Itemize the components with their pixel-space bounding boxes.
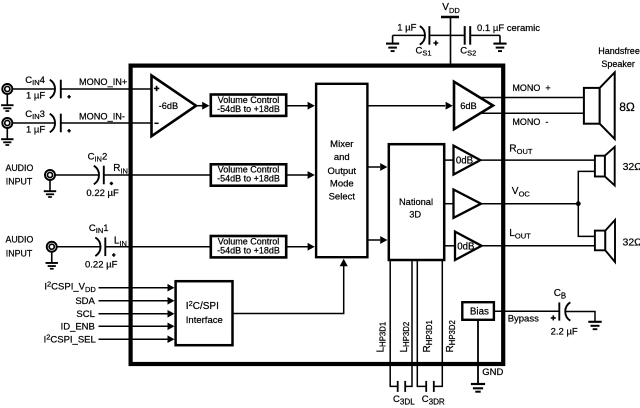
wire J2 to CIN3 [12, 122, 55, 124]
svg-text:INPUT: INPUT [6, 176, 33, 186]
input jack J2 MONO_IN- [2, 118, 12, 128]
op-amp A2 6dB output [454, 82, 493, 130]
svg-text:MONO_IN-: MONO_IN- [79, 111, 125, 121]
block mixer Mixer and Output Mode Select [316, 84, 367, 257]
block VC3 Volume Control [211, 236, 286, 257]
wire CIN1 to VC3, node LIN [105, 246, 211, 248]
svg-text:0.22 µF: 0.22 µF [86, 188, 119, 199]
wire VDD vertical into chip [450, 17, 452, 65]
svg-text:1 µF: 1 µF [26, 90, 45, 101]
wire interface to mixer bottom with up arrow [233, 266, 344, 314]
wire CB to ground [566, 312, 595, 322]
speaker SP1 handsfree 8 ohm [584, 72, 615, 139]
svg-text:0.1 µF ceramic: 0.1 µF ceramic [477, 23, 540, 34]
wire CIN4 to amp, node MONO_IN+ [61, 88, 152, 90]
wire junction to L speaker return [578, 204, 595, 237]
wire HP3D line 2 [405, 260, 412, 386]
capacitor CS2 [465, 26, 471, 45]
wire MONO- to speaker [480, 112, 584, 114]
svg-text:Select: Select [329, 192, 356, 203]
wire ID_ENB into interface with arrow [99, 325, 168, 327]
capacitor CIN3 [50, 114, 71, 133]
svg-text:2.2 µF: 2.2 µF [551, 327, 578, 338]
svg-text:Mode: Mode [330, 179, 354, 190]
wire HP3D line 1 [390, 260, 398, 386]
op-amp A4 VOC buffer [454, 190, 482, 218]
wire CIN2 to VC2, node RIN [104, 174, 211, 176]
svg-text:Output: Output [328, 166, 357, 177]
wire supply rail horizontal [393, 34, 500, 36]
svg-text:0dB: 0dB [457, 242, 474, 253]
wire LOUT to speaker [482, 245, 595, 247]
svg-text:ID_ENB: ID_ENB [61, 322, 95, 333]
wire J1 to CIN4 [12, 88, 55, 90]
ground GND symbol [471, 384, 485, 392]
junction node VOC [576, 201, 581, 206]
svg-text:MONO -: MONO - [512, 117, 548, 127]
wire MONO+ to speaker [479, 97, 584, 99]
svg-text:and: and [334, 152, 350, 163]
svg-text:-6dB: -6dB [159, 101, 178, 111]
ground right of CB [588, 322, 601, 329]
wire I2CSPI_SEL into interface with arrow [99, 338, 168, 340]
wire J3 to CIN2 [55, 174, 99, 176]
svg-text:Handsfree: Handsfree [598, 46, 640, 56]
svg-text:0.22 µF: 0.22 µF [85, 260, 118, 271]
wire mixer to National 3D lower with arrow [367, 239, 380, 241]
wire national to VOC amp [444, 203, 453, 205]
wire SCL into interface with arrow [99, 313, 168, 315]
svg-text:Mixer: Mixer [330, 139, 353, 150]
wire mixer to 6dB amp with arrow [367, 105, 445, 107]
svg-text:32Ω: 32Ω [623, 236, 640, 248]
capacitor CIN1 [95, 237, 115, 256]
wire junction to R speaker return [578, 171, 595, 203]
speaker SP2 right 32 ohm [595, 147, 615, 186]
op-amp A3 0dB right [454, 146, 481, 175]
wire VC1 to mixer with arrow [288, 105, 309, 107]
wire A1 output to VC1 with arrow [196, 105, 203, 107]
ground left of CS1 [386, 35, 399, 51]
input jack J4 left audio [47, 242, 57, 252]
svg-text:Bias: Bias [470, 307, 489, 318]
svg-text:National: National [399, 197, 433, 207]
block bias [462, 302, 494, 320]
A1 minus input mark [154, 122, 158, 124]
svg-text:Interface: Interface [186, 315, 223, 326]
wire national to 0dB L amp [444, 245, 455, 247]
capacitor CB [551, 302, 571, 320]
svg-text:3D: 3D [409, 210, 421, 220]
capacitor CIN4 [50, 80, 71, 99]
A1 plus input mark [154, 86, 159, 91]
svg-text:AUDIO: AUDIO [5, 163, 33, 173]
svg-text:MONO +: MONO + [512, 83, 550, 93]
wire HP3D line 4 [434, 260, 443, 386]
block VC2 Volume Control [211, 164, 286, 185]
wire SDA into interface with arrow [99, 300, 168, 302]
svg-text:INPUT: INPUT [6, 248, 33, 258]
op-amp A5 0dB left [455, 232, 482, 260]
wire VC3 to mixer with arrow [288, 246, 309, 248]
svg-text:-54dB to +18dB: -54dB to +18dB [217, 104, 280, 114]
svg-text:32Ω: 32Ω [623, 161, 640, 173]
ground under J4 [46, 251, 58, 268]
wire ROUT to speaker [480, 159, 595, 161]
capacitor CIN2 [94, 166, 113, 185]
svg-text:SCL: SCL [76, 309, 94, 320]
svg-text:1 µF: 1 µF [397, 23, 416, 34]
VDD supply bar [441, 16, 459, 18]
input jack J1 MONO_IN+ [2, 84, 12, 94]
wire VC2 to mixer with arrow [288, 174, 309, 176]
wire CIN3 to amp, node MONO_IN- [61, 122, 152, 124]
speaker SP3 left 32 ohm [595, 220, 615, 262]
svg-text:Speaker: Speaker [601, 59, 635, 69]
capacitor C3DR [426, 381, 434, 392]
op-amp A1 -6dB [152, 76, 197, 137]
ground under J1 [1, 94, 13, 111]
input jack J3 right audio [45, 170, 55, 180]
block U3 I2C/SPI Interface [176, 281, 233, 345]
wire I2CSPI_VDD into interface with arrow [99, 287, 168, 289]
ground under J3 [44, 180, 56, 197]
svg-text:-54dB to +18dB: -54dB to +18dB [217, 174, 280, 184]
svg-text:-54dB to +18dB: -54dB to +18dB [217, 245, 280, 255]
wire bias to GND [477, 320, 479, 384]
svg-text:6dB: 6dB [460, 101, 477, 111]
svg-text:Bypass: Bypass [508, 313, 539, 324]
chip outline U1 [131, 66, 504, 364]
svg-text:8Ω: 8Ω [619, 100, 635, 114]
wire bias to bypass cap [494, 310, 559, 312]
svg-text:AUDIO: AUDIO [5, 235, 33, 245]
block U2 National 3D [389, 144, 444, 260]
svg-text:GND: GND [482, 367, 503, 378]
capacitor C3DL [398, 381, 406, 392]
capacitor CS1 [420, 26, 439, 45]
wire national to 0dB R amp [444, 159, 453, 161]
ground right of CS2 [493, 35, 506, 51]
wire mixer to National 3D upper with arrow [367, 166, 380, 168]
wire VOC to junction [481, 203, 578, 205]
wire J4 to CIN1 [56, 246, 100, 248]
svg-text:SDA: SDA [75, 296, 95, 307]
svg-text:0dB: 0dB [456, 156, 473, 167]
wire HP3D line 3 [417, 260, 426, 386]
ground under J2 [1, 128, 13, 145]
svg-text:MONO_IN+: MONO_IN+ [79, 77, 127, 87]
svg-text:1 µF: 1 µF [26, 125, 45, 136]
block VC1 Volume Control [211, 95, 286, 116]
svg-text:I2CSPI_SEL: I2CSPI_SEL [44, 333, 96, 346]
